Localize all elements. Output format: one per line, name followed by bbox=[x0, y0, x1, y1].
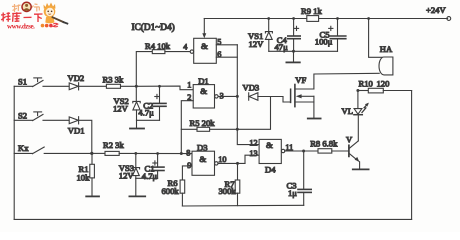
faint orange char 1 bbox=[12, 4, 21, 12]
svg-text:10: 10 bbox=[218, 155, 226, 164]
wire D1 output pin3 bbox=[218, 95, 237, 97]
wire right vertical bbox=[411, 91, 413, 220]
wire pins5/6 down to VD3 node and pin12 bbox=[237, 45, 259, 145]
wire V collector bbox=[357, 115, 359, 141]
node VS3 tap bbox=[134, 152, 137, 155]
ground VS3/C1 bbox=[129, 178, 145, 196]
wire VF drain up to HA bbox=[314, 73, 379, 89]
wire pin10 up to pin13 bbox=[245, 155, 259, 163]
wire VS2/C2 bottom bbox=[137, 119, 160, 121]
zener VS1 bbox=[248, 19, 272, 52]
node HA rail tap bbox=[367, 17, 370, 20]
op-amp gate D2 bbox=[183, 38, 221, 64]
capacitor C3 bbox=[287, 151, 312, 205]
faint orange char 2 bbox=[32, 4, 40, 12]
svg-text:Kx: Kx bbox=[18, 143, 29, 153]
node R5 cross junction bbox=[236, 128, 239, 131]
svg-text:D4: D4 bbox=[265, 164, 276, 174]
wire D3 pin9 to R6 bbox=[182, 166, 192, 180]
svg-text:47μ: 47μ bbox=[275, 42, 289, 52]
svg-text:3: 3 bbox=[220, 91, 224, 100]
svg-text:100μ: 100μ bbox=[315, 37, 333, 47]
svg-text:1: 1 bbox=[187, 81, 191, 90]
diode VD2 bbox=[68, 73, 107, 90]
wire D4 output pin11 bbox=[285, 150, 318, 152]
svg-text:VF: VF bbox=[295, 75, 306, 85]
node ground tap bbox=[292, 50, 295, 53]
svg-text:VD2: VD2 bbox=[68, 73, 85, 83]
wire node to R5/pin12 vertical bbox=[210, 97, 271, 130]
LED VL bbox=[342, 91, 369, 116]
transistor V bbox=[346, 134, 360, 169]
svg-text:12V: 12V bbox=[113, 104, 129, 114]
diode VD1 bbox=[68, 117, 92, 154]
ground R1 bbox=[86, 195, 99, 197]
svg-text:10k: 10k bbox=[77, 173, 91, 183]
wire VS1/C4/C5 bottom bbox=[269, 50, 338, 52]
svg-text:300k: 300k bbox=[219, 186, 237, 196]
svg-text:IC(D1~D4): IC(D1~D4) bbox=[132, 22, 175, 33]
resistor R1 bbox=[77, 153, 95, 195]
capacitor C5 bbox=[315, 19, 346, 52]
op-amp gate D4 bbox=[249, 138, 293, 174]
wire +24V top rail bbox=[204, 18, 447, 20]
ground VF source bbox=[308, 118, 321, 120]
mascot bbox=[44, 3, 69, 25]
switch S2 bbox=[14, 111, 69, 121]
svg-text:&: & bbox=[199, 154, 206, 164]
svg-text:R8 6.8k: R8 6.8k bbox=[310, 138, 338, 148]
svg-text:HA: HA bbox=[380, 44, 393, 54]
svg-text:S1: S1 bbox=[18, 77, 27, 87]
wire VS3/C1 bottom bbox=[136, 177, 158, 179]
svg-text:R5 20k: R5 20k bbox=[190, 118, 216, 128]
node junction R3/R4/VS2 bbox=[135, 85, 138, 88]
zener VS2 bbox=[113, 86, 140, 120]
wire top rail into D2 with arrow bbox=[202, 19, 206, 39]
svg-text:VD3: VD3 bbox=[243, 83, 260, 93]
svg-text:R3 3k: R3 3k bbox=[103, 75, 124, 85]
resistor R2 bbox=[92, 140, 193, 155]
buzzer HA bbox=[369, 19, 393, 75]
op-amp gate D3 bbox=[186, 142, 226, 175]
wire R4 branch up bbox=[136, 52, 152, 87]
wire to D1 pin1 bbox=[136, 86, 193, 90]
wire VF gate jog bbox=[283, 97, 290, 103]
svg-text:R9 1k: R9 1k bbox=[301, 6, 322, 16]
resistor R8 bbox=[310, 138, 349, 153]
svg-text:4.7μ: 4.7μ bbox=[142, 171, 158, 181]
svg-text:&: & bbox=[200, 86, 207, 96]
svg-text:+24V: +24V bbox=[426, 5, 446, 15]
node C3 tap bbox=[302, 150, 305, 153]
red CJK title (vector approx) bbox=[1, 12, 43, 22]
svg-text:R2 3k: R2 3k bbox=[103, 140, 124, 150]
wire D1 pin2 bbox=[181, 101, 193, 154]
node C5 rail tap bbox=[336, 17, 339, 20]
node R1 junction bbox=[90, 152, 93, 155]
svg-text:4: 4 bbox=[183, 43, 187, 52]
resistor R9 bbox=[301, 6, 322, 22]
ground VS2/C2 bbox=[130, 120, 144, 128]
resistor R3 bbox=[103, 75, 137, 89]
wire D3 output pin10 bbox=[218, 162, 245, 164]
switch Kx bbox=[14, 143, 92, 154]
resistor R5 bbox=[181, 118, 215, 132]
svg-text:VD1: VD1 bbox=[68, 126, 85, 136]
MOSFET VF bbox=[291, 75, 314, 118]
svg-text:600k: 600k bbox=[162, 186, 180, 196]
node VD3 junction bbox=[236, 95, 239, 98]
svg-text:120: 120 bbox=[377, 78, 390, 88]
node VS1 rail tap bbox=[267, 17, 270, 20]
zener VS3 bbox=[119, 153, 140, 180]
watermark logo dzsc bbox=[0, 0, 80, 36]
resistor R6 bbox=[162, 178, 185, 206]
wire left border vertical bbox=[13, 86, 15, 219]
svg-text:12: 12 bbox=[249, 138, 257, 147]
wire D2 pin6 bbox=[216, 56, 237, 58]
svg-text:13: 13 bbox=[249, 149, 257, 158]
switch S1 bbox=[14, 77, 69, 87]
capacitor C1 bbox=[142, 154, 164, 181]
node pin2/pin8 junction bbox=[180, 152, 183, 155]
wire timing bottom net bbox=[182, 204, 303, 207]
resistor R7 bbox=[219, 163, 240, 205]
node C1 tap bbox=[156, 152, 159, 155]
svg-text:VL: VL bbox=[342, 106, 353, 116]
op-amp gate D1 bbox=[187, 76, 223, 108]
svg-text:8: 8 bbox=[186, 149, 190, 158]
node +24V terminal bbox=[426, 5, 451, 20]
diode VD3 bbox=[243, 83, 284, 101]
svg-text:S2: S2 bbox=[18, 111, 27, 121]
svg-text:D3: D3 bbox=[197, 142, 208, 152]
capacitor C2 bbox=[138, 86, 166, 120]
node C4 rail tap bbox=[292, 17, 295, 20]
resistor R10 bbox=[358, 78, 412, 93]
svg-text:&: & bbox=[266, 140, 273, 150]
resistor R4 bbox=[145, 41, 190, 54]
node R7 tap bbox=[236, 162, 239, 165]
capacitor C4 bbox=[275, 19, 301, 53]
svg-text:4.7μ: 4.7μ bbox=[138, 108, 154, 118]
ground VS1/C4/C5 bbox=[286, 51, 299, 62]
emblem circle bbox=[22, 2, 31, 11]
svg-text:&: & bbox=[201, 41, 208, 51]
wire D2 pin5 bbox=[216, 44, 237, 46]
svg-text:1μ: 1μ bbox=[288, 188, 297, 198]
svg-text:D1: D1 bbox=[198, 76, 209, 86]
wire bottom rail bbox=[14, 218, 411, 220]
svg-text:R10: R10 bbox=[359, 78, 373, 88]
svg-text:V: V bbox=[346, 134, 353, 144]
svg-text:12V: 12V bbox=[119, 170, 135, 180]
svg-text:R4 10k: R4 10k bbox=[145, 41, 171, 51]
node VL/R10 junction bbox=[356, 89, 359, 92]
svg-text:12V: 12V bbox=[249, 39, 265, 49]
ground V emitter bbox=[353, 168, 369, 170]
svg-text:www.dzse.: www.dzse. bbox=[7, 22, 35, 30]
